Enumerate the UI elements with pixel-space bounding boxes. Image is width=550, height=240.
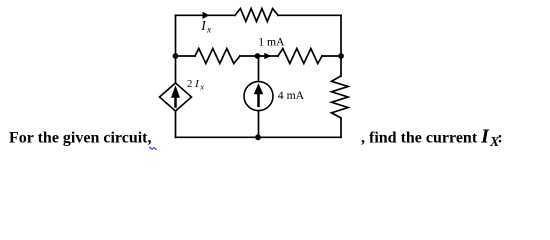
svg-text:, find the current: , find the current [361,130,478,147]
svg-text:For the given circuit,: For the given circuit, [9,130,152,147]
svg-text:2 I: 2 I [187,78,200,90]
svg-text:x: x [206,26,212,36]
svg-text:I: I [480,126,490,148]
svg-text:x: x [199,82,204,92]
svg-text::: : [497,130,502,147]
svg-text:1 mA: 1 mA [258,36,285,49]
svg-text:4 mA: 4 mA [278,89,305,102]
